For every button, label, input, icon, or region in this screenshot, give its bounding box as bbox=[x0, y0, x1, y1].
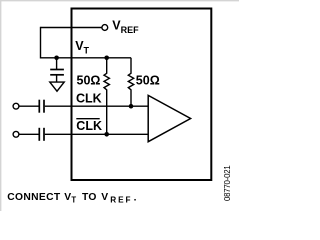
IC outline box bbox=[72, 9, 212, 181]
junction dot CLKB/R1 bbox=[104, 132, 109, 137]
svg-text:.: . bbox=[134, 193, 137, 204]
terminal CLKB bbox=[13, 131, 19, 137]
terminal CLK bbox=[13, 103, 19, 109]
coupling capacitor CLK bbox=[39, 100, 44, 113]
resistor R1 50ohm left bbox=[104, 58, 109, 135]
comparator buffer bbox=[148, 95, 190, 141]
svg-text:08770-021: 08770-021 bbox=[223, 166, 232, 202]
svg-text:REF: REF bbox=[110, 195, 132, 204]
wire CLKB input bbox=[19, 133, 39, 135]
junction dot VT/decoupling cap bbox=[54, 56, 59, 61]
wire VT bbox=[41, 57, 132, 59]
svg-text:CLK: CLK bbox=[76, 119, 102, 133]
svg-text:CONNECT: CONNECT bbox=[7, 192, 61, 203]
overline CLKB bbox=[76, 118, 99, 120]
wire VREF horizontal bbox=[41, 27, 103, 29]
wire VREF-to-VT vertical loop bbox=[40, 27, 42, 59]
wire CLK to comparator bbox=[45, 105, 149, 107]
junction dot VT/R1 bbox=[104, 56, 109, 61]
coupling capacitor CLKB bbox=[39, 128, 44, 141]
svg-text:TO: TO bbox=[82, 192, 97, 203]
svg-text:50Ω: 50Ω bbox=[77, 74, 101, 88]
resistor R2 50ohm right bbox=[128, 58, 133, 106]
wire CLK input bbox=[19, 105, 39, 107]
svg-text:V: V bbox=[64, 192, 71, 203]
svg-text:CLK: CLK bbox=[76, 92, 102, 106]
caption CONNECT VT TO VREF bbox=[7, 192, 136, 205]
wire CLKB to comparator bbox=[45, 133, 149, 135]
junction dot CLK/R2 bbox=[129, 104, 134, 109]
decoupling capacitor bbox=[50, 58, 64, 75]
terminal VREF bbox=[102, 25, 108, 31]
svg-text:T: T bbox=[71, 195, 76, 204]
svg-text:50Ω: 50Ω bbox=[136, 74, 160, 88]
svg-text:V: V bbox=[101, 192, 108, 203]
ground bbox=[50, 75, 64, 91]
